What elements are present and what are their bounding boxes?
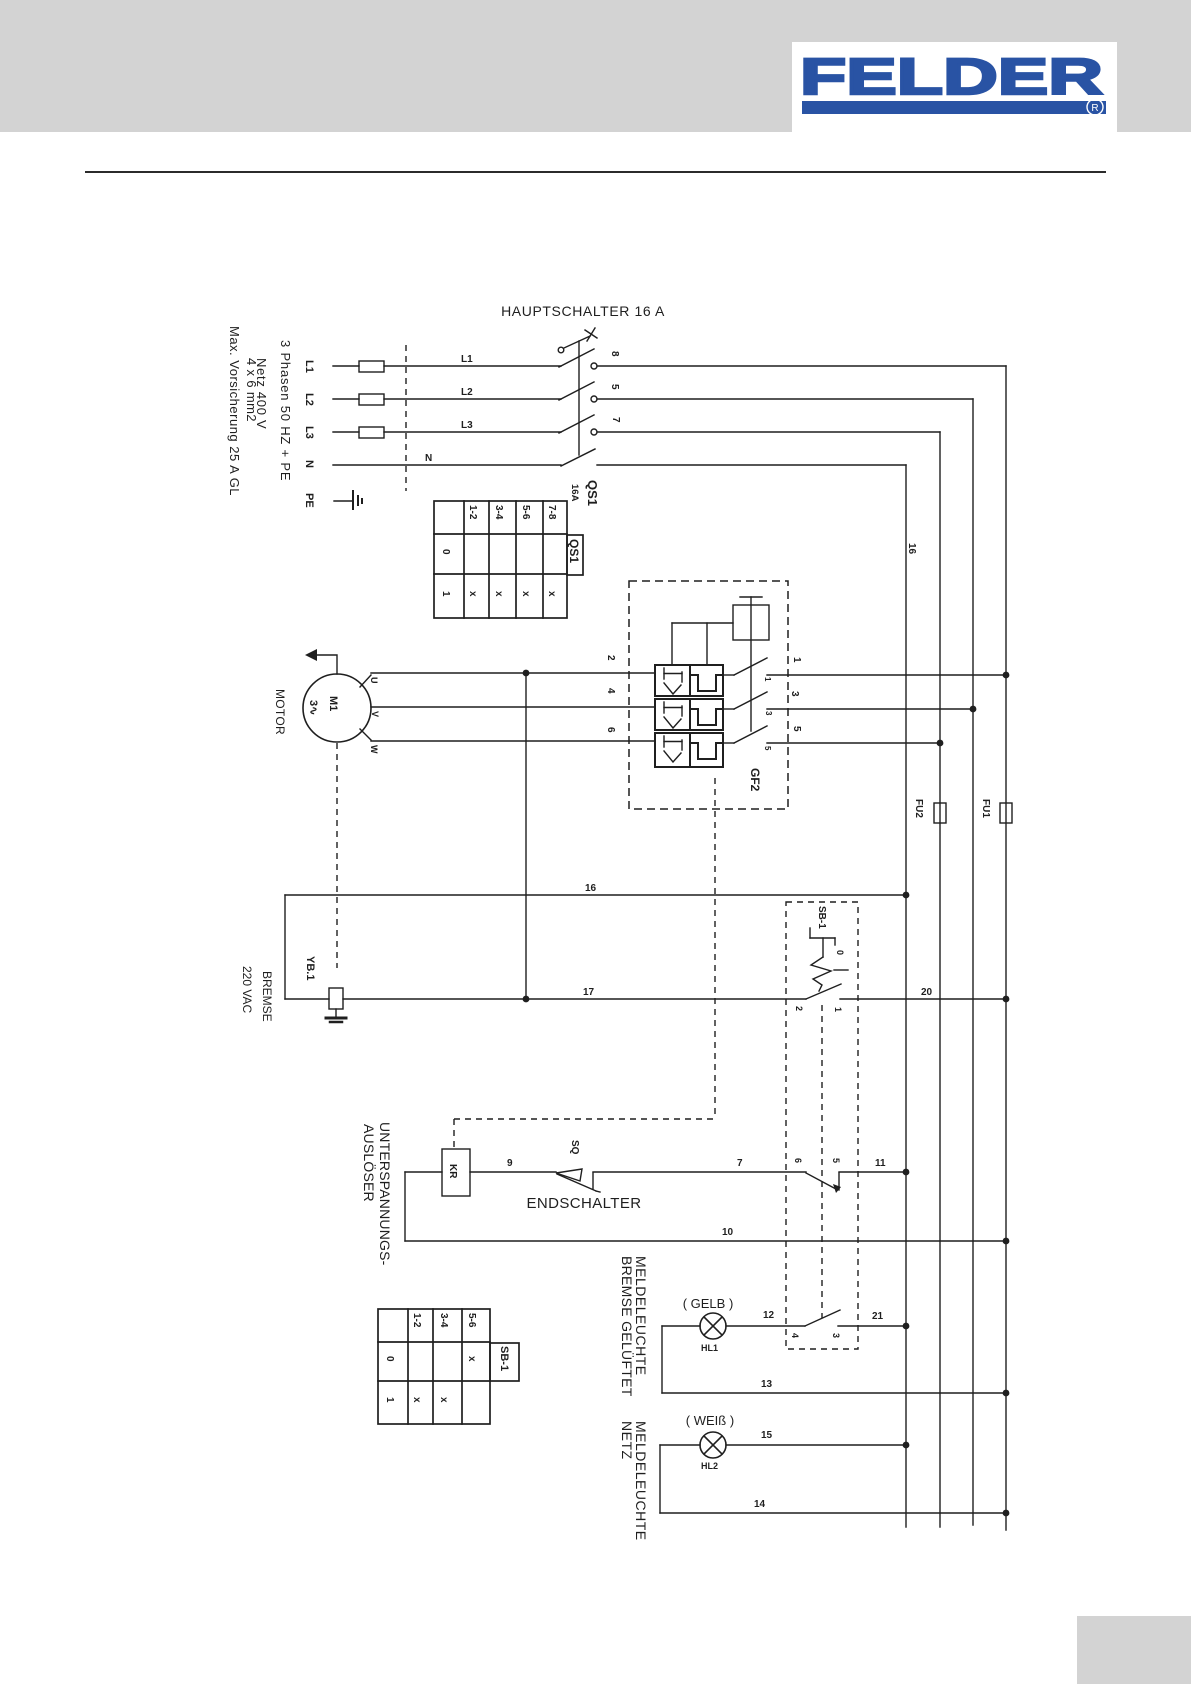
svg-text:SQ: SQ xyxy=(569,1140,580,1155)
SB-1 table cell texts xyxy=(384,1313,510,1403)
SB-1 linkage dashed xyxy=(821,1005,823,1318)
svg-text:BREMSE GELÜFTET: BREMSE GELÜFTET xyxy=(619,1256,636,1397)
wire L1 to switch xyxy=(384,365,561,367)
GF2 motor protection switch dashed enclosure xyxy=(629,581,788,809)
SB-1 switch-position table xyxy=(378,1309,519,1424)
svg-text:Max. Vorsicherung 25 A GL: Max. Vorsicherung 25 A GL xyxy=(227,326,242,496)
wire 17 left xyxy=(285,998,329,1000)
svg-text:21: 21 xyxy=(872,1311,884,1322)
wire L2 in xyxy=(333,398,359,400)
svg-text:N: N xyxy=(303,460,315,468)
svg-text:14: 14 xyxy=(754,1499,766,1510)
svg-text:QS1: QS1 xyxy=(585,480,600,506)
wire U motor to GF2 xyxy=(360,673,655,687)
svg-text:L2: L2 xyxy=(461,387,473,398)
SB-1 actuator hook xyxy=(810,928,835,957)
node on wire U xyxy=(523,670,530,677)
GF2 pole 2 magnetic symbol xyxy=(691,709,723,725)
fuse L1 xyxy=(359,361,384,372)
svg-text:11: 11 xyxy=(875,1158,886,1169)
SB-1 spring xyxy=(811,957,848,991)
GF2 pole 3 blade xyxy=(723,726,767,743)
motor rotation arrow xyxy=(305,649,337,674)
svg-text:1: 1 xyxy=(833,1007,843,1012)
node wire 10 bus L1 xyxy=(1003,1238,1010,1245)
brake pad symbol xyxy=(326,1009,346,1022)
svg-text:NETZ: NETZ xyxy=(619,1421,635,1460)
wire 1 xyxy=(767,674,1006,676)
svg-text:0: 0 xyxy=(440,549,451,555)
wire 3 xyxy=(767,708,973,710)
QS1 table cell texts xyxy=(440,505,581,597)
svg-text:x: x xyxy=(438,1397,449,1403)
wire 7b xyxy=(593,1171,806,1173)
svg-text:5: 5 xyxy=(609,384,620,390)
svg-text:7: 7 xyxy=(610,417,621,423)
svg-text:HAUPTSCHALTER 16 A: HAUPTSCHALTER 16 A xyxy=(501,303,665,319)
svg-text:10: 10 xyxy=(722,1227,734,1238)
brake coil YB.1 xyxy=(329,988,343,1009)
svg-text:BREMSE: BREMSE xyxy=(260,971,274,1022)
svg-text:GF2: GF2 xyxy=(748,768,762,792)
svg-text:2: 2 xyxy=(794,1006,804,1011)
label BREMSE 220 VAC xyxy=(240,966,274,1022)
wire 13 xyxy=(662,1392,1006,1394)
node wire 15 bus N xyxy=(903,1442,910,1449)
svg-text:R: R xyxy=(1091,103,1098,114)
lamp HL2 xyxy=(700,1432,726,1458)
svg-text:4 x 6 mm2: 4 x 6 mm2 xyxy=(244,358,259,422)
svg-text:16A: 16A xyxy=(569,484,580,502)
svg-text:( WEIß ): ( WEIß ) xyxy=(686,1413,734,1428)
bus N vertical xyxy=(905,465,907,1527)
svg-text:L1: L1 xyxy=(461,354,473,365)
svg-text:1-2: 1-2 xyxy=(411,1313,422,1328)
svg-text:17: 17 xyxy=(583,987,595,998)
wire 5 xyxy=(597,398,973,400)
node wire 20 bus L1 xyxy=(1003,996,1010,1003)
brake feeder left riser xyxy=(284,895,286,999)
GF2 linkage to contacts xyxy=(672,623,733,665)
wire 9 to SQ xyxy=(470,1171,556,1173)
GF2 pole 3 overload symbol xyxy=(664,736,682,762)
wire 10 xyxy=(405,1240,1006,1242)
dashed trip link horizontal xyxy=(454,1118,715,1120)
svg-text:7-8: 7-8 xyxy=(546,505,557,520)
cable boundary dashed line xyxy=(405,345,407,491)
svg-text:1: 1 xyxy=(440,591,451,597)
GF2 pole 1 box xyxy=(655,665,723,696)
wire lamp HL2 left xyxy=(660,1444,700,1446)
bus L3 vertical xyxy=(939,432,941,1527)
svg-text:QS1: QS1 xyxy=(567,539,581,563)
svg-text:8: 8 xyxy=(609,351,620,357)
svg-text:4: 4 xyxy=(790,1333,800,1338)
svg-text:x: x xyxy=(520,591,531,597)
GF2 release box xyxy=(733,605,769,640)
bus L2 vertical xyxy=(972,399,974,1525)
PE wire xyxy=(334,500,352,502)
svg-text:2: 2 xyxy=(605,655,616,661)
lamp HL1 left riser xyxy=(661,1326,663,1393)
wire 14 xyxy=(660,1512,1006,1514)
wire 20 xyxy=(840,998,1006,1000)
svg-text:HL1: HL1 xyxy=(701,1343,718,1353)
svg-text:12: 12 xyxy=(763,1310,775,1321)
switch pole L1 contact xyxy=(591,363,597,369)
wire L3 in xyxy=(333,431,359,433)
node wire 13 bus L1 xyxy=(1003,1390,1010,1397)
svg-text:M1: M1 xyxy=(327,696,339,711)
svg-text:x: x xyxy=(411,1397,422,1403)
wire V motor to GF2 xyxy=(371,706,655,708)
wire W motor to GF2 xyxy=(360,729,655,741)
switch pole L2 blade xyxy=(559,382,594,400)
node bus L1 wire 1 xyxy=(1003,672,1010,679)
svg-text:9: 9 xyxy=(507,1158,513,1169)
fuse FU2 xyxy=(913,799,946,823)
svg-text:FU1: FU1 xyxy=(980,799,991,818)
FELDER logo xyxy=(800,48,1106,115)
svg-text:KR: KR xyxy=(447,1164,458,1179)
GF2 pole 2 overload symbol xyxy=(664,702,682,728)
wire 8 xyxy=(597,365,1006,367)
GF2 pole 2 box xyxy=(655,699,723,730)
wire N to switch xyxy=(333,464,561,466)
svg-text:3: 3 xyxy=(764,711,773,716)
node bus L3 wire 5 xyxy=(937,740,944,747)
wire 21 xyxy=(838,1325,906,1327)
control left riser xyxy=(404,1172,406,1241)
svg-text:1: 1 xyxy=(791,657,802,663)
wire 7 xyxy=(597,431,940,433)
wire 12 xyxy=(726,1325,805,1327)
fuse L2 xyxy=(359,394,384,405)
svg-text:3-4: 3-4 xyxy=(438,1313,449,1328)
ground symbol PE xyxy=(353,491,362,509)
svg-text:20: 20 xyxy=(921,987,933,998)
motor M1 circle xyxy=(303,674,371,742)
label MELDELEUCHTE BREMSE GELUEFTET xyxy=(619,1256,649,1397)
svg-text:L2: L2 xyxy=(303,393,315,406)
node wire 14 bus L1 xyxy=(1003,1510,1010,1517)
node bus L2 wire 3 xyxy=(970,706,977,713)
svg-text:V: V xyxy=(370,711,380,717)
fuse FU1 xyxy=(980,799,1012,823)
svg-text:x: x xyxy=(466,1356,477,1362)
switch pole L3 contact xyxy=(591,429,597,435)
svg-text:3: 3 xyxy=(789,691,800,697)
switch pole L3 blade xyxy=(559,415,594,433)
svg-text:0: 0 xyxy=(835,950,845,955)
svg-text:MOTOR: MOTOR xyxy=(273,689,287,735)
mechanical dashed link motor to brake xyxy=(336,743,338,968)
header rule xyxy=(85,171,1106,173)
svg-text:6: 6 xyxy=(605,727,616,733)
GF2 pole 1 blade xyxy=(723,658,767,675)
svg-text:U: U xyxy=(369,677,379,684)
dashed trip link to KR xyxy=(453,1119,455,1149)
wire L2 to switch xyxy=(384,398,561,400)
label MELDELEUCHTE NETZ xyxy=(619,1421,649,1541)
node wire 21 bus N xyxy=(903,1323,910,1330)
SB-1 contact 1-2 blade xyxy=(806,984,841,999)
svg-text:16: 16 xyxy=(585,883,597,894)
svg-text:5-6: 5-6 xyxy=(520,505,531,520)
svg-text:16: 16 xyxy=(906,543,917,555)
svg-text:6: 6 xyxy=(793,1158,803,1163)
svg-text:L1: L1 xyxy=(303,360,315,373)
SB-1 contact 5-6 blade tip xyxy=(833,1184,841,1193)
svg-text:ENDSCHALTER: ENDSCHALTER xyxy=(527,1195,642,1212)
svg-text:1: 1 xyxy=(763,677,772,682)
svg-text:FU2: FU2 xyxy=(913,799,924,818)
QS1 switch-position table xyxy=(434,501,583,618)
svg-text:AUSLÖSER: AUSLÖSER xyxy=(361,1124,378,1202)
svg-text:1: 1 xyxy=(384,1397,395,1403)
svg-text:N: N xyxy=(425,453,432,464)
wire 5b xyxy=(767,742,940,744)
wire from node U down to wire 17 xyxy=(525,673,527,999)
GF2 pole 1 overload symbol xyxy=(664,668,682,694)
wire N out xyxy=(597,464,906,466)
GF2 pole 1 magnetic symbol xyxy=(691,675,723,691)
wire 15 xyxy=(726,1444,906,1446)
wire 11 xyxy=(839,1171,906,1173)
svg-text:3 Phasen 50 HZ + PE: 3 Phasen 50 HZ + PE xyxy=(278,340,293,481)
node wire 11 bus N xyxy=(903,1169,910,1176)
label UNTERSPANNUNGS-AUSLOESER xyxy=(361,1122,393,1266)
SB-1 contact 3-4 blade xyxy=(805,1310,840,1326)
GF2 pole 3 box xyxy=(655,733,723,767)
svg-text:x: x xyxy=(546,591,557,597)
switch pole N blade xyxy=(561,449,595,466)
svg-text:3: 3 xyxy=(831,1333,841,1338)
switch pole L2 contact xyxy=(591,396,597,402)
undervoltage coil KR xyxy=(442,1149,470,1196)
GF2 trip dashed linkage down xyxy=(714,778,716,1119)
wire 17 xyxy=(343,998,806,1000)
lamp HL1 xyxy=(700,1313,726,1339)
svg-text:0: 0 xyxy=(384,1356,395,1362)
node wire 16 bus N xyxy=(903,892,910,899)
svg-text:5: 5 xyxy=(763,746,772,751)
svg-text:5: 5 xyxy=(791,726,802,732)
SB-1 contact 5-6 blade xyxy=(806,1173,839,1190)
svg-text:FELDER: FELDER xyxy=(800,48,1103,105)
wire 16 xyxy=(285,894,906,896)
svg-text:UNTERSPANNUNGS-: UNTERSPANNUNGS- xyxy=(377,1122,393,1266)
svg-text:YB.1: YB.1 xyxy=(304,956,316,980)
wire L3 to switch xyxy=(384,431,561,433)
svg-text:3∿: 3∿ xyxy=(307,700,319,715)
svg-text:L3: L3 xyxy=(461,420,473,431)
wire 9 xyxy=(405,1171,442,1173)
svg-text:PE: PE xyxy=(303,493,315,508)
svg-text:W: W xyxy=(369,745,379,754)
svg-text:( GELB ): ( GELB ) xyxy=(683,1296,734,1311)
svg-text:SB-1: SB-1 xyxy=(498,1346,510,1371)
svg-text:L3: L3 xyxy=(303,426,315,439)
main switch handle xyxy=(558,328,597,353)
svg-text:7: 7 xyxy=(737,1158,743,1169)
svg-text:HL2: HL2 xyxy=(701,1461,718,1471)
svg-text:5: 5 xyxy=(831,1158,841,1163)
fuse L3 xyxy=(359,427,384,438)
svg-text:x: x xyxy=(467,591,478,597)
svg-text:13: 13 xyxy=(761,1379,773,1390)
svg-text:x: x xyxy=(493,591,504,597)
svg-text:220 VAC: 220 VAC xyxy=(240,966,254,1013)
svg-text:5-6: 5-6 xyxy=(466,1313,477,1328)
svg-text:1-2: 1-2 xyxy=(467,505,478,520)
GF2 release T-bar xyxy=(740,596,762,598)
GF2 pole 2 blade xyxy=(723,692,767,709)
limit switch SQ xyxy=(556,1169,600,1192)
svg-text:15: 15 xyxy=(761,1430,773,1441)
svg-text:3-4: 3-4 xyxy=(493,505,504,520)
SB-1 brake switch dashed enclosure xyxy=(786,902,858,1349)
wire L1 in xyxy=(333,365,359,367)
lamp HL2 left riser xyxy=(659,1445,661,1513)
svg-text:4: 4 xyxy=(605,688,616,694)
switch pole L1 blade xyxy=(559,349,594,367)
main switch QS1 coupling bar xyxy=(578,341,580,455)
wire lamp HL1 left xyxy=(662,1325,700,1327)
node wire 17 from motor branch xyxy=(523,996,530,1003)
GF2 pole 3 magnetic symbol xyxy=(691,743,723,759)
svg-text:SB-1: SB-1 xyxy=(816,906,827,929)
GF2 trip shaft xyxy=(750,597,752,731)
bus L1 vertical xyxy=(1005,366,1007,1530)
